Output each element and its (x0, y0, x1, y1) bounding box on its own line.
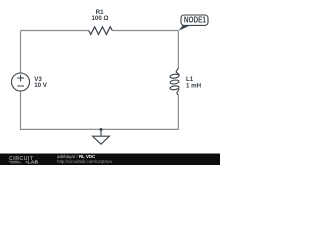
svg-text:10 V: 10 V (34, 82, 48, 89)
svg-text:100 Ω: 100 Ω (91, 15, 108, 22)
svg-text:http://circuitlab.com/c2qtzwx: http://circuitlab.com/c2qtzwx (57, 159, 113, 164)
svg-text:NODE1: NODE1 (184, 16, 206, 25)
svg-text:1 mH: 1 mH (186, 83, 202, 90)
svg-text:▪LAB: ▪LAB (26, 160, 39, 165)
